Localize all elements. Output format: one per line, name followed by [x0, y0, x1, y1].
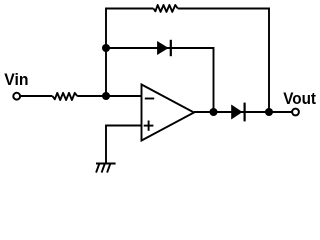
wire op-amp output to output terminal [194, 111, 292, 113]
resistor R2 (top feedback) [153, 5, 177, 12]
svg-text:Vout: Vout [283, 89, 316, 108]
wire Vin terminal to R1 [21, 95, 53, 97]
resistor R1 [52, 93, 77, 100]
svg-text:Vin: Vin [4, 70, 28, 89]
output terminal (open circle) [292, 109, 299, 116]
diode D1 (feedback) [157, 40, 171, 56]
wire R1 to inverting input [77, 95, 141, 97]
wire second feedback row and middle column [106, 48, 214, 112]
ground [96, 164, 116, 173]
input terminal (open circle) [13, 93, 20, 100]
node output junction [210, 108, 218, 116]
diode D2 (output) [231, 103, 244, 122]
wire R2 to right column down to Vout node [178, 9, 269, 113]
node inverting input junction [102, 92, 110, 100]
wire non-inverting input [106, 126, 142, 164]
op-amp U1 [142, 85, 195, 141]
node feedback junction [102, 44, 110, 52]
wire feedback loop: left column, top row, right column [106, 9, 153, 97]
op-amp plus symbol [144, 121, 154, 131]
node Vout junction [265, 108, 273, 116]
op-amp minus symbol [145, 98, 154, 100]
